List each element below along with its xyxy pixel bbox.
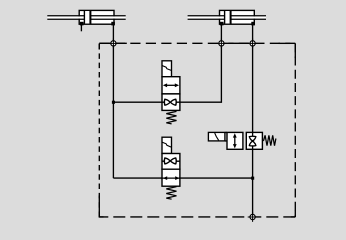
- cylinder 1 piston: [84, 11, 90, 23]
- valve V3 (2/2, horizontal) solenoid box: [208, 132, 227, 141]
- cylinder 1 port A: [80, 22, 84, 26]
- connection node circle 2 (frame top, middle): [217, 39, 227, 49]
- valve V1 return spring: [166, 111, 176, 124]
- valve V2 (2/2 NO, vertical) solenoid box: [162, 137, 172, 153]
- cylinder 2 body: [188, 10, 266, 25]
- connection node circle 3 (frame top, right): [248, 39, 258, 49]
- valve V1 position box 1 (flow arrow): [162, 77, 180, 94]
- cylinder 2 port A: [220, 22, 224, 26]
- connection node circle 1 (frame top, left): [109, 39, 119, 49]
- valve V2 return spring: [166, 187, 176, 200]
- wire: valve V2 right port to right bus: [180, 177, 253, 179]
- wire: valve V1 right port up to cylinder2 port A: [180, 24, 222, 102]
- junction dot valve V1 feed: [112, 101, 115, 104]
- cylinder 2 port B: [251, 22, 255, 26]
- enclosure dashed frame: [99, 42, 295, 44]
- wire right bus: cylinder2 port B through valve V3 to bottom node: [252, 24, 254, 217]
- valve V3 position box 1 (flow arrow): [227, 132, 243, 149]
- cylinder 1 port B: [111, 22, 115, 26]
- valve V1 position box 2 (blocked, rest): [162, 94, 180, 111]
- cylinder 1 piston rod: [47, 16, 125, 18]
- cylinder 2 piston: [225, 11, 231, 23]
- valve V2 position box 1 (blocked): [162, 154, 180, 170]
- valve V2 position box 2 (flow arrow, rest): [162, 169, 180, 186]
- wire: feed to valve V1 left port: [113, 101, 162, 103]
- valve V3 position box 2 (blocked, rest): [246, 132, 262, 149]
- frame solid segment between nodes: [228, 42, 248, 44]
- cylinder 2 piston rod: [188, 16, 266, 18]
- junction dot valve V2 output on right bus: [251, 177, 254, 180]
- frame corner solid segments: [98, 43, 100, 49]
- valve V3 return spring: [263, 135, 276, 145]
- wire left: cylinder1 port B down to valve V2 level: [112, 24, 114, 178]
- valve V1 (2/2 NC, vertical) solenoid box: [162, 61, 172, 77]
- cylinder 1 body: [47, 10, 125, 25]
- frame solid segment top-left corner to node: [99, 42, 127, 44]
- connection node circle 4 (frame bottom): [248, 212, 258, 222]
- wire: feed to valve V2 left port: [113, 177, 162, 179]
- wire stub: cylinder1 port A open: [80, 25, 82, 31]
